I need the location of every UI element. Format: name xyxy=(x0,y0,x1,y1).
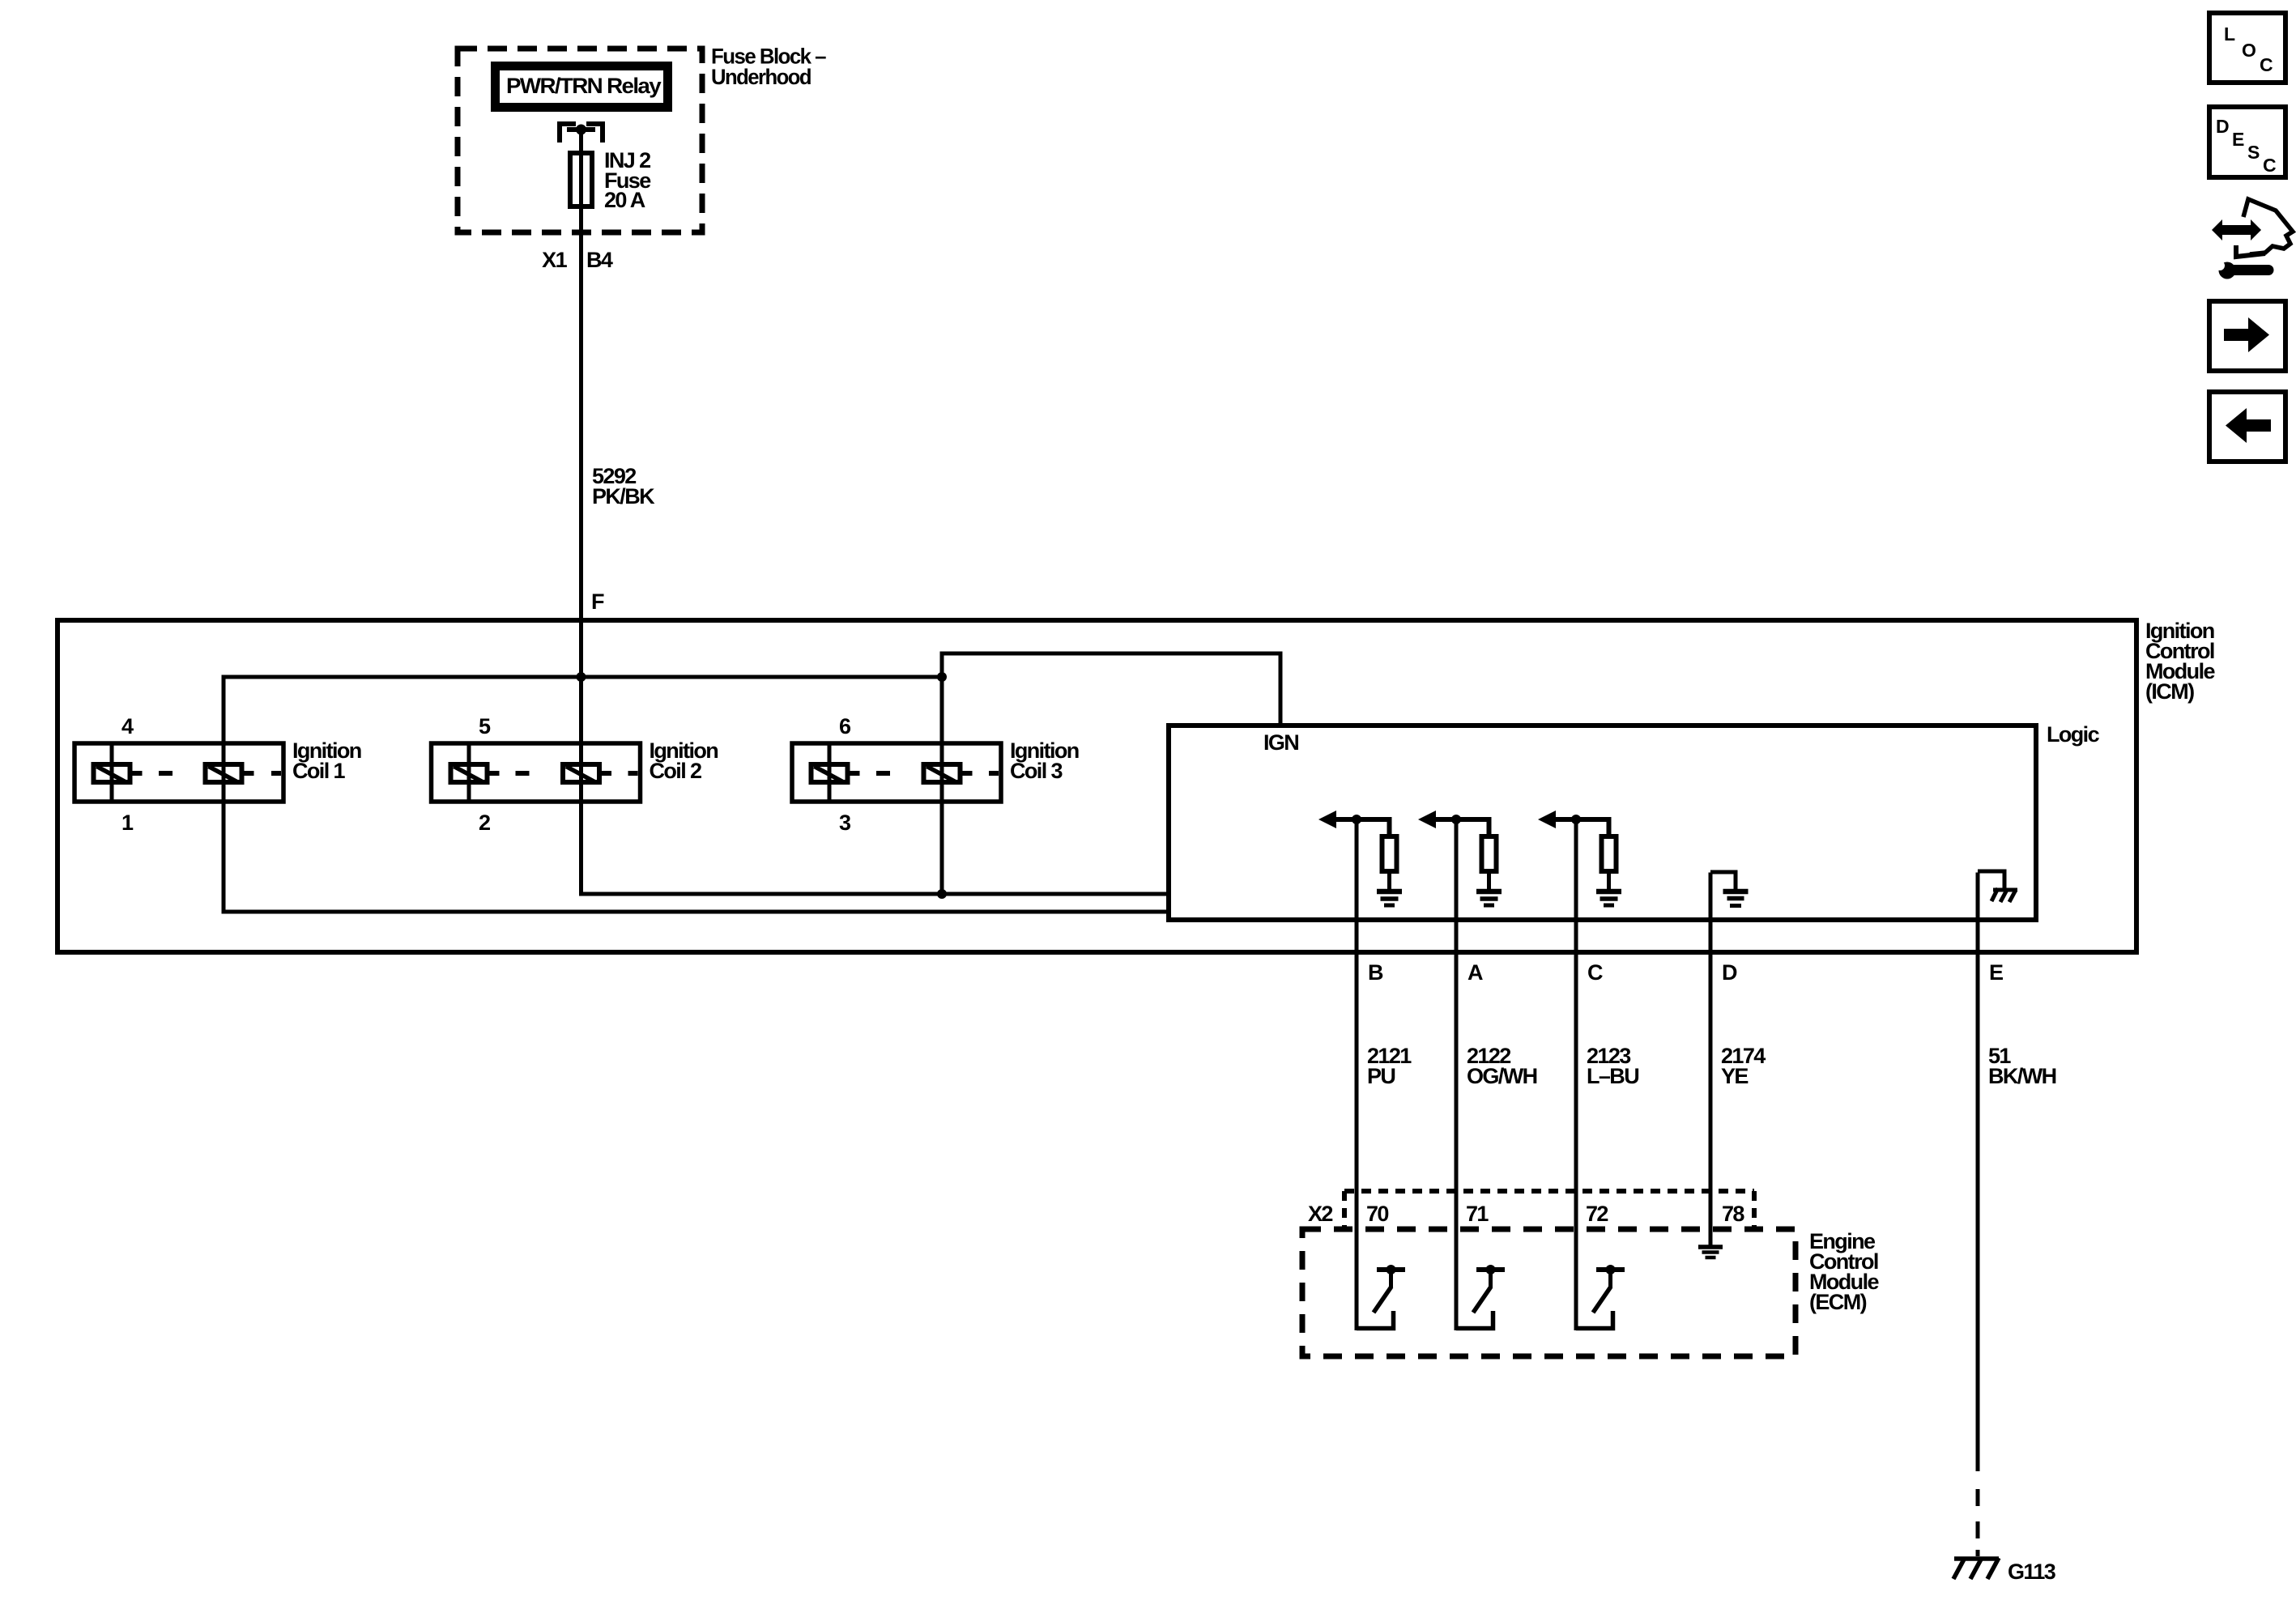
label Fuse Block - Underhood xyxy=(711,45,827,90)
svg-text:D: D xyxy=(1722,960,1737,985)
ground (resistor B) xyxy=(1377,891,1402,905)
svg-text:L–BU: L–BU xyxy=(1587,1064,1638,1088)
svg-text:4: 4 xyxy=(121,714,134,738)
wire label 2122 xyxy=(1467,1044,1537,1088)
svg-text:OG/WH: OG/WH xyxy=(1467,1064,1537,1088)
icon box back (left arrow) xyxy=(2209,392,2285,462)
ground G113 symbol xyxy=(1953,1558,1999,1579)
wire label 2121 xyxy=(1367,1044,1412,1088)
label INJ 2 Fuse 20 A xyxy=(604,148,651,212)
svg-text:BK/WH: BK/WH xyxy=(1988,1064,2056,1088)
ECM driver switch at pin 71 xyxy=(1456,1265,1505,1329)
svg-text:20 A: 20 A xyxy=(604,188,645,212)
svg-text:(ECM): (ECM) xyxy=(1809,1290,1867,1314)
ignition coil 2 box xyxy=(432,743,641,802)
svg-text:E: E xyxy=(2232,129,2244,150)
output C: wire down to ECM xyxy=(1574,819,1578,1330)
ECM driver switch at pin 70 xyxy=(1357,1265,1405,1329)
wire resistor C to ground xyxy=(1607,871,1611,891)
coil3 pin2 wire xyxy=(940,652,944,895)
output A: junction dot xyxy=(1451,815,1461,824)
relay output terminal xyxy=(560,124,603,143)
connector X2 dotted outline xyxy=(1344,1191,1754,1229)
resistor C xyxy=(1602,836,1617,871)
wire label 5292 PK/BK xyxy=(592,464,655,509)
svg-text:6: 6 xyxy=(839,714,851,738)
svg-text:71: 71 xyxy=(1466,1202,1489,1226)
IGN sense wire to logic box xyxy=(942,653,1280,726)
svg-text:PK/BK: PK/BK xyxy=(592,484,655,509)
output A: wire down to ECM xyxy=(1455,819,1459,1330)
svg-text:F: F xyxy=(591,589,604,614)
junction coil3 wire / rail xyxy=(937,672,947,682)
svg-text:IGN: IGN xyxy=(1263,730,1298,755)
output A: arrow xyxy=(1418,811,1436,828)
output D: corner to ground xyxy=(1710,872,1736,891)
ground (logic D) xyxy=(1723,891,1749,906)
output B: arrow xyxy=(1318,811,1336,828)
ignition coil 3 box xyxy=(792,743,1001,802)
svg-text:Underhood: Underhood xyxy=(711,65,811,89)
coil2 pin2 wire (feed continues) xyxy=(579,677,583,896)
svg-text:A: A xyxy=(1467,960,1483,985)
svg-text:PWR/TRN Relay: PWR/TRN Relay xyxy=(506,74,662,98)
wire label 51 xyxy=(1988,1044,2056,1088)
svg-text:D: D xyxy=(2216,116,2229,137)
svg-text:Logic: Logic xyxy=(2047,722,2100,747)
svg-text:70: 70 xyxy=(1366,1202,1388,1226)
upper rail from coil2 to logic xyxy=(579,892,1169,896)
output C: arrow xyxy=(1538,811,1556,828)
svg-text:G113: G113 xyxy=(2008,1560,2056,1584)
junction coil3 wire / upper rail xyxy=(937,889,947,899)
svg-text:X1: X1 xyxy=(542,248,567,272)
lower rail from coil1 to logic xyxy=(222,910,1169,914)
label Ignition Coil 1 xyxy=(292,738,361,783)
svg-text:YE: YE xyxy=(1721,1064,1748,1088)
label Ignition Coil 3 xyxy=(1010,738,1079,783)
svg-text:Coil 3: Coil 3 xyxy=(1010,759,1063,783)
logic box xyxy=(1169,726,2036,920)
output C: junction dot xyxy=(1571,815,1581,824)
resistor B xyxy=(1382,836,1397,871)
svg-text:72: 72 xyxy=(1586,1202,1608,1226)
output E: corner to chassis ground xyxy=(1978,871,2004,888)
svg-text:78: 78 xyxy=(1722,1202,1744,1226)
svg-text:5: 5 xyxy=(479,714,491,738)
output B: junction dot xyxy=(1352,815,1361,824)
svg-text:O: O xyxy=(2242,40,2256,61)
svg-text:C: C xyxy=(2260,54,2273,75)
svg-text:(ICM): (ICM) xyxy=(2145,679,2194,704)
svg-text:S: S xyxy=(2247,142,2260,163)
junction F wire / rail xyxy=(577,672,586,682)
output E: wire down to G113 xyxy=(1976,873,1980,1472)
icon box DESC xyxy=(2209,107,2285,177)
output D: wire down to ECM pin 78 xyxy=(1709,873,1713,1249)
label Ignition Control Module (ICM) xyxy=(2145,619,2215,704)
svg-text:Coil 2: Coil 2 xyxy=(650,759,701,783)
resistor A xyxy=(1482,836,1497,871)
wire 5292 PK/BK from fuse to ICM pin F xyxy=(579,153,583,679)
fuse block - underhood dashed box xyxy=(458,49,702,232)
output B: shaft wire xyxy=(1335,819,1390,834)
svg-text:3: 3 xyxy=(839,811,851,835)
svg-text:C: C xyxy=(1587,960,1603,985)
svg-text:E: E xyxy=(1989,960,2003,985)
svg-text:PU: PU xyxy=(1367,1064,1395,1088)
icon box next (right arrow) xyxy=(2209,301,2285,371)
output A: shaft wire xyxy=(1434,819,1489,834)
svg-text:1: 1 xyxy=(121,811,134,835)
svg-text:L: L xyxy=(2224,23,2235,45)
svg-text:X2: X2 xyxy=(1308,1202,1332,1226)
label Engine Control Module (ECM) xyxy=(1809,1229,1879,1314)
output C: shaft wire xyxy=(1554,819,1609,834)
ground (resistor A) xyxy=(1476,891,1502,905)
ground at ECM pin 78 xyxy=(1698,1247,1723,1257)
wire resistor B to ground xyxy=(1387,871,1391,891)
ignition coil 1 box xyxy=(75,743,283,802)
svg-text:Coil 1: Coil 1 xyxy=(292,759,345,783)
chassis ground (logic E) xyxy=(1991,888,2017,902)
svg-text:B4: B4 xyxy=(586,248,613,272)
output B: wire down to ECM xyxy=(1355,819,1359,1330)
wire resistor A to ground xyxy=(1487,871,1491,891)
label Ignition Coil 2 xyxy=(650,738,718,783)
supply rail (node from F to coils) xyxy=(224,675,942,679)
svg-text:C: C xyxy=(2263,155,2276,176)
fuse INJ 2 20 A xyxy=(570,130,592,206)
ECM dashed box xyxy=(1302,1229,1795,1356)
relay PWR/TRN Relay xyxy=(496,66,668,108)
wire E dashed section xyxy=(1976,1489,1980,1556)
svg-text:2: 2 xyxy=(479,811,490,835)
coil1 pin2 wire xyxy=(222,675,226,914)
wire label 2123 xyxy=(1587,1044,1638,1088)
svg-text:B: B xyxy=(1368,960,1383,985)
ICM Ignition Control Module box xyxy=(58,620,2136,952)
icon hand with double arrow and wrench xyxy=(2212,199,2293,279)
wire label 2174 xyxy=(1721,1044,1766,1088)
icon box LOC xyxy=(2209,13,2285,83)
ground (resistor C) xyxy=(1596,891,1621,905)
ECM driver switch at pin 72 xyxy=(1576,1265,1625,1329)
